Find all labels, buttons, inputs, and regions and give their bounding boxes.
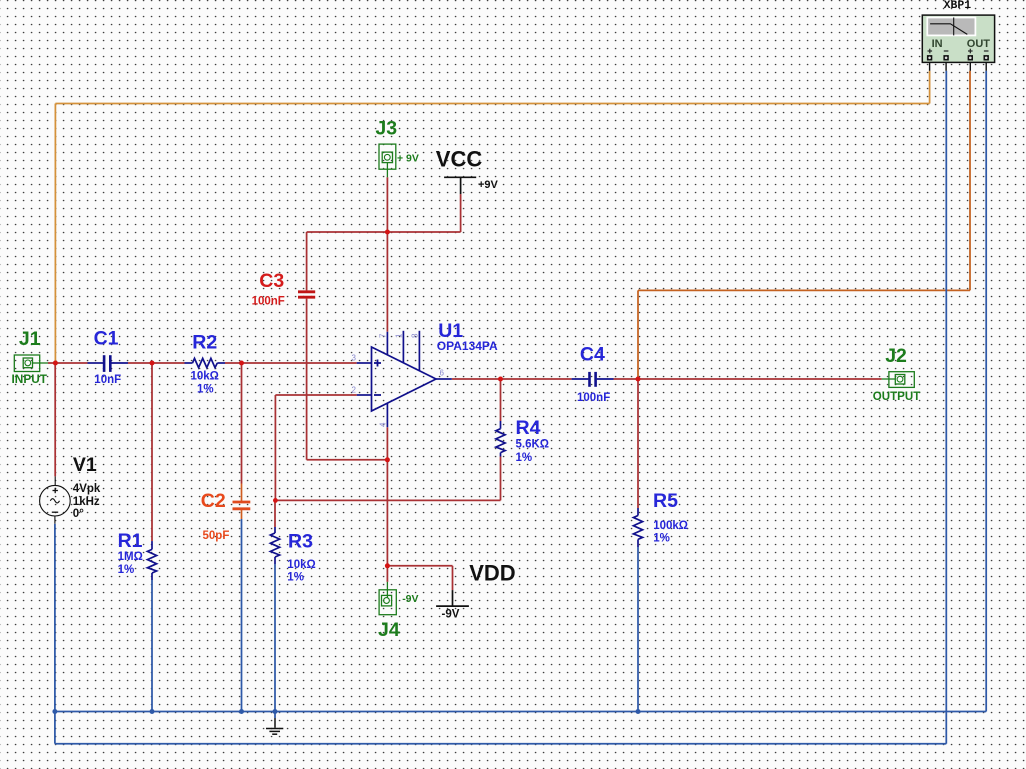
svg-text:100nF: 100nF — [252, 296, 285, 308]
svg-text:J4: J4 — [378, 619, 400, 641]
svg-text:IN: IN — [932, 38, 943, 50]
svg-text:OUT: OUT — [967, 38, 991, 50]
svg-text:4: 4 — [379, 422, 388, 427]
svg-text:+9V: +9V — [478, 179, 499, 191]
wire IN+ net orange horizontal top rail — [55, 103, 929, 105]
svg-text:10nF: 10nF — [94, 374, 121, 386]
junction output net at C4-R5 — [636, 377, 641, 382]
svg-text:R2: R2 — [192, 332, 217, 354]
svg-text:1: 1 — [395, 333, 404, 338]
wire ground rail 1 — [55, 711, 986, 713]
wire XBP1 IN- to ground rail 2 — [945, 71, 947, 744]
wire V- net to J4 — [386, 566, 388, 582]
svg-text:VDD: VDD — [469, 561, 515, 586]
wire C3 top lead — [306, 232, 308, 290]
source V1 — [40, 476, 71, 523]
wire output net op-amp to C4 — [452, 378, 572, 380]
wire IN+ net orange vertical from J1 junction up — [54, 104, 56, 364]
resistor R5 — [633, 508, 642, 547]
wire V1 plus lead up to input net — [54, 363, 56, 476]
wire VCC net J3 down to op-amp pin 7 — [386, 177, 388, 331]
wire output net C4 to J2 — [614, 378, 882, 380]
junction ground at R1 — [150, 709, 155, 714]
svg-text:XBP1: XBP1 — [944, 0, 972, 12]
wire R4 top lead — [500, 379, 502, 421]
wire IN+ net orange vertical up to XBP1 IN+ pin — [929, 71, 931, 104]
svg-text:C2: C2 — [201, 490, 226, 512]
svg-text:100kΩ: 100kΩ — [653, 520, 688, 532]
wire VCC net from VCC symbol down — [460, 194, 462, 232]
svg-text:5.6KΩ: 5.6KΩ — [516, 438, 550, 450]
svg-text:V1: V1 — [73, 454, 97, 476]
svg-text:10kΩ: 10kΩ — [191, 370, 219, 382]
svg-text:OPA134PA: OPA134PA — [437, 339, 498, 353]
wire feedback op-amp pin 2 horizontal — [275, 394, 356, 396]
svg-text:6: 6 — [440, 369, 445, 378]
junction output net at R4 — [498, 377, 503, 382]
wire R4 bottom lead — [500, 457, 502, 501]
capacitor C2 — [233, 484, 251, 520]
wire R3 top lead — [274, 500, 276, 527]
wire input net C1 to R2 — [128, 362, 185, 364]
junction input net at R1 — [150, 361, 155, 366]
resistor R2 — [185, 358, 226, 367]
capacitor C3 — [298, 292, 315, 297]
junction V- net at VDD branch — [385, 563, 390, 568]
connector J4 — [379, 582, 396, 615]
svg-text:R5: R5 — [653, 490, 678, 512]
connector J3 — [379, 144, 396, 177]
wire OUT+ net dark orange vertical from output junction up — [637, 290, 639, 379]
svg-text:+ 9V: + 9V — [397, 153, 419, 165]
svg-text:INPUT: INPUT — [12, 374, 48, 386]
svg-text:1%: 1% — [118, 564, 135, 576]
junction ground at C2 — [239, 709, 244, 714]
svg-text:3: 3 — [352, 354, 357, 363]
junction feedback net at R3 — [273, 498, 278, 503]
wire ground link between rails at left — [54, 712, 56, 744]
connector J2 — [882, 372, 915, 388]
svg-text:OUTPUT: OUTPUT — [873, 391, 921, 403]
svg-text:C1: C1 — [94, 327, 119, 349]
svg-text:C3: C3 — [259, 270, 284, 292]
op-amp U1 — [357, 331, 452, 427]
svg-text:10kΩ: 10kΩ — [287, 559, 315, 571]
svg-text:1%: 1% — [197, 384, 214, 396]
svg-text:J3: J3 — [375, 118, 397, 140]
power VDD symbol — [436, 590, 469, 606]
svg-text:50pF: 50pF — [203, 530, 230, 542]
capacitor C1 — [88, 355, 129, 372]
svg-text:VCC: VCC — [436, 147, 483, 172]
wire R1 top to input net — [151, 363, 153, 541]
connector J1 — [14, 355, 48, 372]
svg-text:R1: R1 — [118, 530, 143, 552]
svg-text:1kHz: 1kHz — [73, 496, 100, 508]
svg-text:2: 2 — [352, 386, 357, 395]
junction ground at R5 — [636, 709, 641, 714]
wire input net R2 to op-amp pin 3 — [225, 362, 357, 364]
wire C3 bottom horizontal to V- net — [307, 459, 388, 461]
svg-text:-9V: -9V — [402, 593, 418, 605]
wire VCC net horizontal — [307, 231, 461, 233]
svg-text:-9V: -9V — [442, 609, 460, 621]
svg-text:1%: 1% — [516, 452, 533, 464]
ground symbol — [266, 718, 283, 734]
wire V1 minus to ground rail — [54, 524, 56, 712]
svg-text:J2: J2 — [885, 345, 907, 367]
wire C3 bottom vertical — [306, 299, 308, 460]
wire R5 bottom to ground rail — [637, 547, 639, 712]
wire OUT+ net dark orange vertical to XBP1 OUT+ pin — [969, 71, 971, 291]
wire feedback horizontal to R4 — [275, 499, 500, 501]
wire OUT+ net dark orange horizontal — [638, 289, 970, 291]
resistor R3 — [270, 527, 279, 564]
resistor R4 — [496, 421, 505, 457]
resistor R1 — [147, 541, 156, 580]
svg-text:4Vpk: 4Vpk — [73, 483, 101, 495]
junction input net at J1 — [53, 361, 58, 366]
wire V- net op-amp pin 4 down — [386, 427, 388, 566]
junction ground at V1 — [52, 709, 57, 714]
svg-text:1%: 1% — [653, 533, 670, 545]
wire R3 bottom to ground rail — [274, 564, 276, 718]
svg-text:7: 7 — [379, 333, 388, 338]
junction input net at C2 — [239, 361, 244, 366]
svg-text:1MΩ: 1MΩ — [118, 551, 143, 563]
wire XBP1 OUT- to ground rail 1 — [985, 71, 987, 712]
capacitor C4 — [572, 372, 614, 387]
power VCC symbol — [444, 177, 476, 194]
wire C2 top to input net — [241, 363, 243, 484]
svg-text:0°: 0° — [73, 508, 84, 520]
wire R5 top lead — [637, 379, 639, 508]
wire R1 bottom to ground rail — [151, 580, 153, 712]
wire VDD branch horizontal — [387, 565, 452, 567]
junction VCC net — [385, 230, 390, 235]
svg-text:1%: 1% — [287, 571, 304, 583]
wire input net J1 to C1 — [48, 362, 88, 364]
svg-text:J1: J1 — [19, 328, 41, 350]
wire ground rail 2 — [55, 743, 946, 745]
svg-text:100nF: 100nF — [577, 392, 610, 404]
wire VDD branch vertical — [452, 566, 454, 590]
svg-text:C4: C4 — [580, 344, 605, 366]
junction V- net at C3 — [385, 457, 390, 462]
instrument XBP1 bode plotter — [922, 15, 994, 71]
svg-text:8: 8 — [411, 333, 420, 338]
svg-text:R4: R4 — [516, 417, 541, 439]
wire feedback vertical — [274, 395, 276, 500]
svg-text:R3: R3 — [288, 530, 313, 552]
junction ground at R3 — [273, 709, 278, 714]
wire C2 bottom to ground rail — [241, 519, 243, 712]
